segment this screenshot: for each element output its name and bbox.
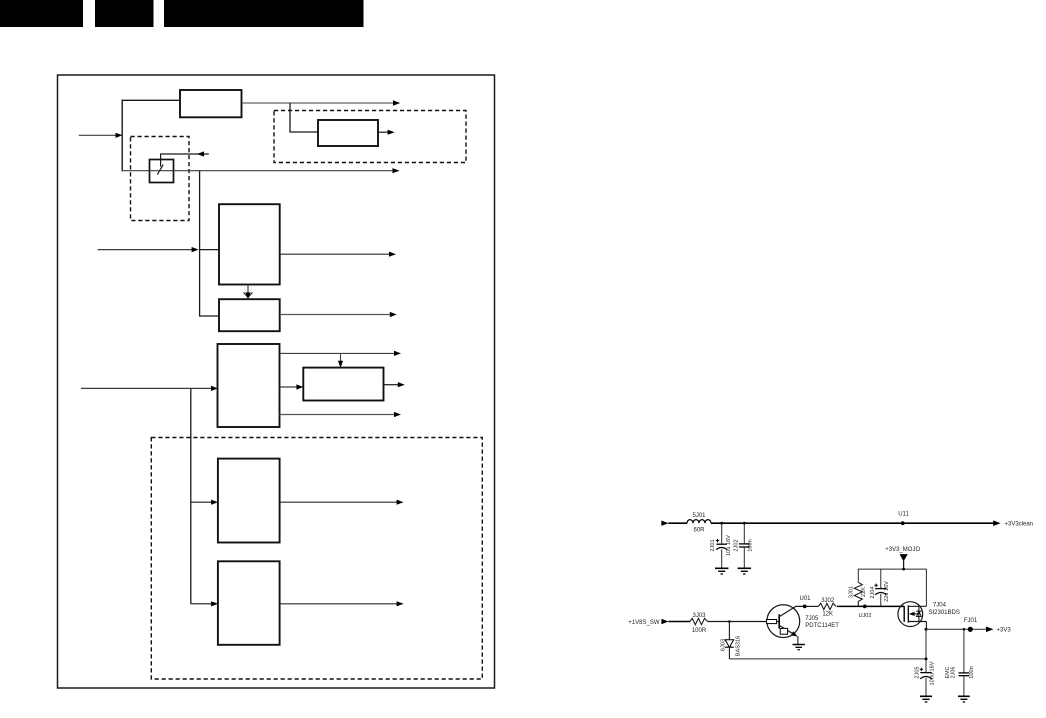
arrow B3 to B4 — [244, 285, 253, 300]
wire input B7 — [191, 500, 218, 505]
wire output B8 — [280, 601, 404, 606]
svg-text:2J01: 2J01 — [710, 539, 716, 551]
svg-text:PDTC114ET: PDTC114ET — [805, 623, 839, 629]
wire output B2 — [378, 130, 395, 135]
block box B3 — [219, 204, 280, 284]
header redacted bar 3 — [164, 0, 364, 27]
node U01 — [803, 605, 807, 609]
svg-text:100n: 100n — [969, 666, 975, 678]
wire input B8 — [191, 601, 218, 606]
wire gate line — [837, 605, 904, 607]
block box B1 — [180, 90, 242, 117]
wire output B4 — [280, 312, 397, 317]
svg-text:U01: U01 — [799, 596, 811, 602]
header redacted bar 2 — [95, 0, 154, 27]
transistor 7J05 — [767, 605, 805, 645]
junction dot at 2J02 — [743, 522, 746, 525]
svg-text:22u 16V: 22u 16V — [884, 581, 890, 602]
svg-text:+3V3: +3V3 — [997, 628, 1012, 634]
wire drop to block B2 — [290, 103, 318, 132]
wire bus to block B3 — [200, 249, 219, 251]
svg-text:2J06: 2J06 — [951, 667, 957, 679]
svg-text:SI2301BDS: SI2301BDS — [929, 610, 960, 616]
wire vertical riser row1 — [121, 100, 123, 172]
svg-text:BAS316: BAS316 — [736, 636, 742, 657]
svg-text:12K: 12K — [822, 611, 833, 617]
transistor 7J04 MOSFET — [898, 602, 927, 627]
svg-text:7J04: 7J04 — [933, 602, 947, 608]
capacitor 2J04 — [874, 569, 886, 606]
block box B4 — [219, 299, 280, 331]
wire input row1 — [79, 133, 123, 138]
dashed group box top-right — [274, 111, 466, 163]
junction dot 2J06 tap — [963, 628, 966, 631]
svg-text:60R: 60R — [693, 528, 705, 534]
block box B8 — [218, 561, 280, 645]
wire bus mid — [199, 171, 201, 316]
wire base line — [708, 621, 767, 623]
wire output B5 upper — [280, 351, 402, 356]
svg-text:2J04: 2J04 — [870, 586, 876, 598]
wire left drop to 3J01 — [857, 569, 859, 583]
switch blade — [157, 165, 163, 175]
switch control stem — [161, 154, 209, 167]
block box B6 — [303, 368, 383, 401]
junction dot diode tap — [728, 620, 731, 623]
block box B5 — [218, 344, 280, 427]
wire drop to bottom rail — [925, 629, 927, 672]
node U11 — [901, 521, 905, 525]
svg-text:3J02: 3J02 — [821, 598, 835, 604]
wire output row1 — [242, 100, 401, 105]
svg-text:2J02: 2J02 — [733, 539, 739, 551]
header redacted bar 1 — [0, 0, 83, 27]
wire upper branch rail — [858, 568, 926, 570]
wire B5 to B6 — [280, 384, 304, 389]
junction dot drain — [925, 628, 928, 631]
svg-text:+1V8S_SW: +1V8S_SW — [628, 620, 660, 626]
block box B2 — [318, 120, 378, 146]
ground under 2J06 — [958, 696, 970, 702]
ground under 7J05 — [793, 645, 805, 650]
wire top rail +3V3clean — [668, 522, 993, 524]
node FJ01 — [968, 627, 973, 632]
wire bus lower — [190, 388, 192, 603]
wire bottom rail — [729, 658, 926, 660]
svg-text:+3V3clean: +3V3clean — [1005, 521, 1034, 527]
capacitor 2J06 — [959, 629, 970, 696]
junction dot at 2J01 — [720, 522, 723, 525]
switch box S1 — [150, 160, 174, 183]
svg-text:100R: 100R — [692, 628, 707, 634]
node UJ02 — [863, 605, 867, 609]
wire to 3J03 — [668, 621, 690, 623]
wire input row3 — [81, 386, 218, 391]
svg-text:10u 16V: 10u 16V — [726, 535, 732, 556]
power arrow +3V3_MOJO — [900, 554, 908, 561]
dashed group box bottom — [151, 438, 482, 680]
resistor 3J02 — [818, 603, 836, 609]
input terminal top rail — [661, 521, 668, 526]
junction dot MOJO — [902, 568, 905, 571]
ground under 2J01 — [715, 568, 728, 574]
wire output B6 — [384, 382, 405, 387]
wire output B5 lower — [280, 412, 402, 417]
svg-text:3J03: 3J03 — [692, 613, 706, 619]
svg-text:100n: 100n — [748, 539, 754, 551]
wire output B7 — [280, 500, 404, 505]
svg-text:2J05: 2J05 — [915, 666, 921, 678]
dashed group box switch — [131, 137, 190, 221]
svg-text:5J01: 5J01 — [692, 513, 706, 519]
junction dot bottom rail — [925, 657, 928, 660]
svg-text:100u 16V: 100u 16V — [930, 661, 936, 685]
switch control arrowhead — [197, 151, 204, 156]
svg-text:3J01: 3J01 — [848, 586, 854, 598]
block diagram outer frame — [58, 75, 495, 688]
inductor 5J01 — [687, 520, 711, 524]
capacitor 2J01 — [716, 523, 727, 568]
svg-text:22K: 22K — [861, 587, 867, 597]
arrow drop to block B6 — [338, 353, 343, 367]
arrowhead +3V3clean — [993, 520, 1000, 526]
wire bus to block B4 — [199, 315, 219, 317]
arrowhead +3V3 — [986, 627, 993, 633]
wire output +3V3 — [926, 628, 987, 630]
svg-text:FJ01: FJ01 — [964, 618, 978, 624]
wire MOSFET drain corner — [925, 622, 927, 630]
resistor 3J03 — [690, 618, 708, 624]
resistor 3J01 — [854, 582, 862, 606]
wire MOJO stem — [903, 561, 905, 569]
svg-text:6J03: 6J03 — [720, 639, 726, 651]
ground under 2J02 — [738, 568, 751, 574]
capacitor 2J05 — [920, 668, 932, 696]
block box B7 — [218, 459, 280, 543]
wire U01 to 3J02 — [805, 605, 819, 607]
svg-text:+3V3_MOJO: +3V3_MOJO — [885, 547, 920, 553]
wire output B3 — [280, 252, 396, 257]
wire right drop to MOSFET source — [925, 569, 927, 606]
diode 6J03 — [725, 622, 734, 659]
ground under 2J05 — [920, 696, 932, 702]
label EMC 2J06 — [945, 666, 957, 678]
svg-text:U11: U11 — [898, 511, 909, 517]
wire switched line row2 — [122, 168, 399, 173]
svg-text:UJ02: UJ02 — [858, 613, 871, 619]
wire input mid — [98, 247, 199, 252]
wire to block B1 — [122, 99, 181, 101]
capacitor 2J02 — [739, 523, 750, 568]
svg-text:7J05: 7J05 — [805, 616, 819, 622]
input terminal +1V8S_SW — [661, 619, 668, 624]
